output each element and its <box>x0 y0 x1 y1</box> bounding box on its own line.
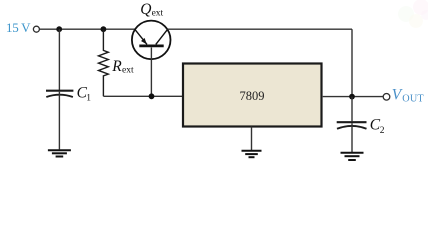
svg-text:Q: Q <box>140 1 151 18</box>
svg-text:V: V <box>392 86 403 103</box>
wire regulator ground pin <box>251 127 253 151</box>
resistor Rext <box>99 29 109 96</box>
svg-text:R: R <box>111 58 122 75</box>
ground (C1) <box>48 150 71 156</box>
svg-text:15 V: 15 V <box>6 20 31 35</box>
ground (regulator) <box>242 151 262 157</box>
wire regulator output <box>323 96 384 98</box>
wire top rail left <box>40 28 135 30</box>
svg-text:OUT: OUT <box>402 94 424 105</box>
wire base node to regulator input <box>103 95 182 97</box>
wire C2 branch <box>351 97 353 122</box>
ground (C2) <box>341 153 364 160</box>
node VOUT terminal <box>383 94 390 101</box>
junction dot C1 tap <box>56 26 62 32</box>
capacitor C2 <box>337 122 367 129</box>
wire output drop <box>351 29 353 96</box>
watermark smudge top right <box>398 0 428 28</box>
svg-text:ext: ext <box>122 66 134 76</box>
transistor Q_ext <box>132 21 171 60</box>
capacitor C1 <box>46 91 73 97</box>
junction dot output node <box>349 94 355 100</box>
node 15V input terminal <box>33 26 39 32</box>
junction dot base node <box>149 93 155 99</box>
wire C1 to ground <box>58 92 60 150</box>
wire C1 branch <box>58 29 60 90</box>
wire C2 to ground <box>351 123 353 152</box>
svg-text:2: 2 <box>380 126 385 136</box>
regulator U1 7809 <box>183 64 322 127</box>
wire base lead <box>150 48 152 97</box>
svg-text:1: 1 <box>86 93 91 103</box>
junction dot Rext tap <box>101 26 107 32</box>
wire top rail right <box>168 28 352 30</box>
svg-text:7809: 7809 <box>240 89 265 103</box>
svg-text:ext: ext <box>152 9 164 19</box>
